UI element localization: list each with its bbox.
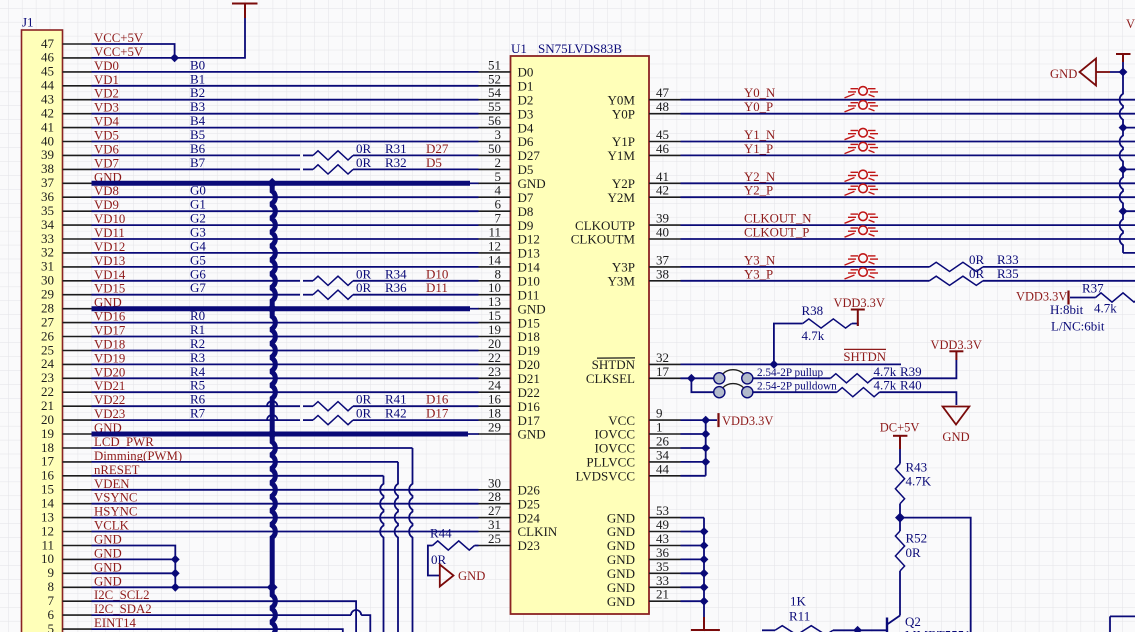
svg-text:D0: D0 bbox=[518, 65, 534, 80]
svg-text:14: 14 bbox=[41, 496, 55, 511]
svg-text:45: 45 bbox=[41, 64, 54, 79]
svg-text:44: 44 bbox=[41, 78, 55, 93]
svg-text:U1: U1 bbox=[511, 41, 527, 56]
svg-text:EINT14: EINT14 bbox=[94, 616, 137, 630]
junction dots VCC group bbox=[701, 416, 710, 425]
jumper link icon on Y3_N bbox=[845, 254, 879, 265]
svg-text:D22: D22 bbox=[518, 385, 540, 400]
svg-text:D11: D11 bbox=[518, 287, 540, 302]
svg-text:R37: R37 bbox=[1082, 281, 1104, 296]
wire D23 right of R44 bbox=[475, 545, 479, 547]
svg-text:D17: D17 bbox=[426, 406, 449, 421]
svg-text:Y3M: Y3M bbox=[608, 274, 636, 289]
svg-text:SHTDN: SHTDN bbox=[592, 357, 636, 372]
svg-text:D21: D21 bbox=[518, 371, 540, 386]
svg-text:VD20: VD20 bbox=[94, 365, 125, 379]
hop I2C_SDA2 over I2C_SCL2 bbox=[351, 610, 361, 615]
svg-text:D10: D10 bbox=[518, 274, 540, 289]
svg-text:16: 16 bbox=[41, 468, 55, 483]
svg-text:VD0: VD0 bbox=[94, 59, 119, 73]
svg-text:R33: R33 bbox=[997, 252, 1019, 267]
svg-text:D6: D6 bbox=[518, 134, 534, 149]
svg-text:7: 7 bbox=[48, 593, 55, 608]
svg-text:VCC+5V: VCC+5V bbox=[94, 45, 144, 59]
jumper header 2.54-2P pullup bbox=[714, 370, 753, 384]
svg-text:28: 28 bbox=[488, 489, 501, 504]
jumper link icon on Y3_P bbox=[845, 268, 879, 279]
wire R40 to GND bbox=[879, 392, 956, 405]
wire CLKSEL bbox=[681, 378, 714, 392]
svg-text:D2: D2 bbox=[518, 92, 534, 107]
svg-text:2: 2 bbox=[495, 155, 502, 170]
svg-text:41: 41 bbox=[656, 169, 669, 184]
LVDS differential wires bbox=[681, 100, 1135, 239]
svg-text:GND: GND bbox=[94, 546, 122, 560]
transistor Q2 bbox=[887, 616, 900, 632]
svg-text:Y0_N: Y0_N bbox=[744, 86, 775, 100]
svg-text:CLKOUTP: CLKOUTP bbox=[575, 218, 635, 233]
svg-text:Y1_P: Y1_P bbox=[744, 142, 773, 156]
svg-text:D5: D5 bbox=[426, 155, 442, 170]
svg-text:Y1M: Y1M bbox=[608, 148, 636, 163]
svg-text:CLKIN: CLKIN bbox=[518, 524, 558, 539]
svg-text:17: 17 bbox=[656, 364, 670, 379]
svg-text:15: 15 bbox=[488, 308, 501, 323]
junction Q2 base bbox=[853, 626, 862, 632]
svg-text:VD9: VD9 bbox=[94, 198, 119, 212]
wire R11 to base bbox=[833, 629, 858, 631]
power port bar VDD3.3V at R37 bbox=[1067, 291, 1069, 305]
wire D16 right segment bbox=[353, 405, 479, 407]
svg-text:D5: D5 bbox=[518, 162, 534, 177]
svg-text:35: 35 bbox=[41, 203, 54, 218]
svg-text:B7: B7 bbox=[190, 155, 206, 170]
svg-text:GND: GND bbox=[607, 566, 635, 581]
power port VDD3.3V above R38 bbox=[851, 310, 865, 327]
svg-text:GND: GND bbox=[607, 594, 635, 609]
svg-text:0R: 0R bbox=[356, 280, 372, 295]
wire D10 left segment bbox=[92, 280, 301, 282]
svg-text:31: 31 bbox=[41, 259, 54, 274]
resistor R44 bbox=[433, 541, 475, 550]
power port VDD3.3V top right (cropped) bbox=[1116, 54, 1131, 62]
svg-text:9: 9 bbox=[48, 565, 55, 580]
svg-text:D14: D14 bbox=[518, 260, 541, 275]
wire EINT14 bbox=[92, 629, 343, 632]
svg-text:CLKOUT_N: CLKOUT_N bbox=[744, 212, 812, 226]
svg-text:4.7k: 4.7k bbox=[802, 328, 825, 343]
svg-text:VD21: VD21 bbox=[94, 379, 125, 393]
svg-text:39: 39 bbox=[41, 147, 54, 162]
junction dots on GND rail bbox=[1119, 68, 1128, 77]
svg-text:0R: 0R bbox=[906, 545, 922, 560]
svg-text:nRESET: nRESET bbox=[94, 463, 140, 477]
svg-text:VD16: VD16 bbox=[94, 310, 126, 324]
power port GND bar bottom bbox=[691, 617, 720, 630]
svg-text:L/NC:6bit: L/NC:6bit bbox=[1051, 319, 1105, 334]
svg-text:D7: D7 bbox=[518, 190, 534, 205]
svg-text:29: 29 bbox=[41, 287, 54, 302]
svg-text:22: 22 bbox=[488, 350, 501, 365]
svg-text:Y1P: Y1P bbox=[612, 134, 635, 149]
svg-text:VD23: VD23 bbox=[94, 407, 125, 421]
svg-text:D20: D20 bbox=[518, 357, 540, 372]
wire VCC+5V pin47 bbox=[92, 44, 175, 58]
svg-text:G1: G1 bbox=[190, 197, 206, 212]
wire D27 left segment bbox=[92, 154, 301, 156]
svg-text:Y2_N: Y2_N bbox=[744, 170, 775, 184]
wire D17 left segment bbox=[92, 419, 301, 421]
wire DC+5V to R43 bbox=[899, 449, 901, 464]
jumper link icon on Y1_P bbox=[845, 142, 879, 153]
svg-text:GND: GND bbox=[94, 574, 122, 588]
svg-text:11: 11 bbox=[41, 537, 54, 552]
svg-text:19: 19 bbox=[41, 426, 54, 441]
wire Q2 base bbox=[858, 629, 887, 631]
svg-text:D26: D26 bbox=[518, 483, 541, 498]
power port VDD3.3V right bbox=[949, 351, 963, 360]
wire Y3_P left bbox=[681, 280, 930, 282]
svg-text:R38: R38 bbox=[802, 303, 824, 318]
svg-text:D3: D3 bbox=[518, 106, 534, 121]
svg-text:19: 19 bbox=[488, 322, 501, 337]
svg-text:0R: 0R bbox=[431, 552, 447, 567]
resistor R34 bbox=[313, 276, 353, 285]
svg-text:D16: D16 bbox=[426, 392, 449, 407]
svg-text:H:8bit: H:8bit bbox=[1050, 302, 1084, 317]
wire D17 right segment bbox=[353, 419, 479, 421]
jumper link icon on CLKOUT_P bbox=[845, 226, 879, 237]
svg-text:38: 38 bbox=[41, 161, 54, 176]
U1 right pin numbers bbox=[656, 85, 670, 602]
jumper link icon on Y0_P bbox=[845, 101, 879, 112]
svg-text:47: 47 bbox=[41, 36, 55, 51]
svg-text:27: 27 bbox=[41, 314, 55, 329]
svg-text:27: 27 bbox=[488, 503, 502, 518]
svg-text:G2: G2 bbox=[190, 211, 206, 226]
svg-text:Y0P: Y0P bbox=[612, 106, 635, 121]
svg-text:Y1_N: Y1_N bbox=[744, 128, 775, 142]
svg-text:GND: GND bbox=[607, 580, 635, 595]
svg-text:G5: G5 bbox=[190, 252, 206, 267]
svg-text:VD1: VD1 bbox=[94, 73, 119, 87]
svg-text:D17: D17 bbox=[518, 413, 541, 428]
svg-text:12: 12 bbox=[41, 523, 54, 538]
svg-text:G6: G6 bbox=[190, 266, 206, 281]
svg-text:R4: R4 bbox=[190, 364, 206, 379]
wire pullup to R39 bbox=[753, 377, 831, 379]
svg-text:8: 8 bbox=[48, 579, 55, 594]
wire R52 to Q2 collector bbox=[899, 571, 901, 616]
wire D11 right segment bbox=[353, 294, 479, 296]
svg-text:D12: D12 bbox=[518, 232, 540, 247]
svg-text:PLLVCC: PLLVCC bbox=[586, 455, 635, 470]
svg-text:42: 42 bbox=[656, 183, 669, 198]
resistor R40 bbox=[837, 388, 880, 397]
svg-text:29: 29 bbox=[488, 420, 501, 435]
svg-text:Y0M: Y0M bbox=[608, 92, 636, 107]
svg-text:VD15: VD15 bbox=[94, 282, 125, 296]
svg-text:55: 55 bbox=[488, 99, 501, 114]
svg-text:GND: GND bbox=[607, 552, 635, 567]
resistor R32 bbox=[313, 165, 353, 174]
svg-text:VD8: VD8 bbox=[94, 184, 119, 198]
svg-text:4: 4 bbox=[495, 183, 502, 198]
svg-text:VDD3.3V: VDD3.3V bbox=[722, 414, 773, 428]
U1 right pin names bbox=[571, 92, 636, 609]
svg-text:8: 8 bbox=[495, 266, 502, 281]
svg-text:16: 16 bbox=[488, 392, 502, 407]
wire Y3_N left bbox=[681, 266, 930, 268]
svg-text:10: 10 bbox=[488, 280, 501, 295]
svg-text:49: 49 bbox=[656, 517, 669, 532]
svg-text:I2C_SCL2: I2C_SCL2 bbox=[94, 588, 149, 602]
svg-text:20: 20 bbox=[488, 336, 501, 351]
svg-text:37: 37 bbox=[41, 175, 55, 190]
svg-text:6: 6 bbox=[48, 607, 55, 622]
svg-text:38: 38 bbox=[656, 266, 669, 281]
svg-text:R7: R7 bbox=[190, 406, 206, 421]
svg-text:53: 53 bbox=[656, 503, 669, 518]
junction CLKSEL bbox=[687, 374, 696, 383]
svg-text:21: 21 bbox=[41, 398, 54, 413]
IC U1 body bbox=[511, 56, 650, 614]
svg-text:VD7: VD7 bbox=[94, 156, 119, 170]
wire GND rows 11-8 bbox=[92, 546, 273, 588]
wire D5 right segment bbox=[353, 168, 479, 170]
svg-text:R1: R1 bbox=[190, 322, 205, 337]
svg-text:25: 25 bbox=[41, 342, 54, 357]
svg-text:G7: G7 bbox=[190, 280, 206, 295]
wires U1 GND pins bbox=[681, 518, 705, 617]
resistor R35 bbox=[930, 276, 984, 285]
svg-text:VD6: VD6 bbox=[94, 142, 119, 156]
svg-text:9: 9 bbox=[656, 406, 663, 421]
wire VDD3.3V to R37 bbox=[1070, 297, 1096, 299]
svg-text:43: 43 bbox=[41, 92, 54, 107]
svg-text:42: 42 bbox=[41, 106, 54, 121]
svg-text:B0: B0 bbox=[190, 57, 205, 72]
svg-text:6: 6 bbox=[495, 197, 502, 212]
svg-text:VCC+5V: VCC+5V bbox=[94, 31, 144, 45]
wire D27 right segment bbox=[353, 154, 479, 156]
junction VCC+5V bbox=[170, 54, 179, 63]
svg-text:VDEN: VDEN bbox=[94, 477, 130, 491]
svg-text:VD22: VD22 bbox=[94, 393, 125, 407]
junction R38-SHTDN bbox=[770, 360, 779, 369]
svg-text:R6: R6 bbox=[190, 392, 206, 407]
svg-text:52: 52 bbox=[488, 71, 501, 86]
svg-text:Dimming(PWM): Dimming(PWM) bbox=[94, 449, 182, 463]
svg-text:IOVCC: IOVCC bbox=[595, 427, 635, 442]
wires VCC/IOVCC/PLLVCC/LVDSVCC bbox=[681, 420, 718, 476]
resistor R42 bbox=[313, 416, 353, 425]
svg-text:R36: R36 bbox=[385, 280, 407, 295]
svg-text:22: 22 bbox=[41, 384, 54, 399]
jumper link icon on Y2_P bbox=[845, 184, 879, 195]
svg-text:R11: R11 bbox=[789, 609, 810, 624]
svg-text:33: 33 bbox=[41, 231, 54, 246]
svg-text:LVDSVCC: LVDSVCC bbox=[576, 469, 635, 484]
wire bottom right corner bbox=[1110, 616, 1135, 632]
wire nRESET bbox=[92, 475, 384, 477]
svg-text:30: 30 bbox=[488, 475, 501, 490]
svg-text:D19: D19 bbox=[518, 343, 540, 358]
svg-text:46: 46 bbox=[41, 50, 55, 65]
svg-text:CLKOUT_P: CLKOUT_P bbox=[744, 226, 809, 240]
power port DC+5V bbox=[893, 436, 907, 449]
svg-text:4.7k: 4.7k bbox=[874, 364, 897, 379]
svg-text:R52: R52 bbox=[906, 531, 928, 546]
svg-text:R2: R2 bbox=[190, 336, 205, 351]
svg-text:54: 54 bbox=[488, 85, 502, 100]
svg-text:14: 14 bbox=[488, 252, 502, 267]
svg-text:CLKSEL: CLKSEL bbox=[586, 371, 635, 386]
svg-text:7: 7 bbox=[495, 211, 502, 226]
svg-text:13: 13 bbox=[488, 294, 501, 309]
svg-text:R42: R42 bbox=[385, 406, 407, 421]
svg-text:43: 43 bbox=[656, 531, 669, 546]
svg-text:GND: GND bbox=[518, 427, 546, 442]
svg-text:40: 40 bbox=[41, 133, 54, 148]
resistor R41 bbox=[313, 402, 353, 411]
svg-text:J1: J1 bbox=[22, 15, 34, 30]
svg-text:CLKOUTM: CLKOUTM bbox=[571, 232, 636, 247]
svg-text:0R: 0R bbox=[356, 266, 372, 281]
svg-text:50: 50 bbox=[488, 141, 501, 156]
wire VCC+5V pin46 bbox=[92, 18, 246, 58]
svg-text:D8: D8 bbox=[518, 204, 534, 219]
jumper link icon on CLKOUT_N bbox=[845, 212, 879, 223]
wire D16 left segment bbox=[92, 405, 301, 407]
svg-text:GND: GND bbox=[518, 176, 546, 191]
svg-text:GND: GND bbox=[458, 569, 485, 583]
svg-text:0R: 0R bbox=[356, 406, 372, 421]
svg-text:20: 20 bbox=[41, 412, 54, 427]
svg-text:VCLK: VCLK bbox=[94, 519, 130, 533]
svg-text:Y0_P: Y0_P bbox=[744, 100, 773, 114]
svg-text:GND: GND bbox=[607, 538, 635, 553]
wire Y3_P right bbox=[983, 280, 1135, 282]
svg-text:R44: R44 bbox=[430, 526, 452, 541]
svg-text:31: 31 bbox=[488, 517, 501, 532]
wire R11 left bbox=[762, 629, 775, 631]
svg-text:26: 26 bbox=[41, 328, 55, 343]
svg-text:R5: R5 bbox=[190, 378, 205, 393]
svg-text:26: 26 bbox=[656, 434, 670, 449]
overline on pin name SHTDN bbox=[597, 357, 635, 359]
svg-text:D23: D23 bbox=[518, 538, 540, 553]
svg-text:2.54-2P pullup: 2.54-2P pullup bbox=[757, 367, 823, 379]
svg-text:0R: 0R bbox=[356, 141, 372, 156]
svg-text:R39: R39 bbox=[900, 364, 922, 379]
svg-text:15: 15 bbox=[41, 482, 54, 497]
wire hops over bus on VD22 VD23 bbox=[267, 401, 277, 420]
svg-text:VD14: VD14 bbox=[94, 268, 126, 282]
svg-text:R35: R35 bbox=[997, 266, 1019, 281]
resistor R38 connection wires bbox=[774, 324, 858, 365]
svg-text:23: 23 bbox=[41, 370, 54, 385]
resistor R43 bbox=[895, 464, 904, 504]
svg-text:0R: 0R bbox=[356, 155, 372, 170]
svg-text:24: 24 bbox=[41, 356, 55, 371]
power port VCC+5V top bbox=[232, 4, 258, 19]
svg-text:3: 3 bbox=[495, 127, 502, 142]
wire LCD_PWR bbox=[92, 447, 413, 449]
jumper link icon on Y1_N bbox=[845, 128, 879, 139]
svg-text:Y2P: Y2P bbox=[612, 176, 635, 191]
junction dots U1 GND group bbox=[700, 527, 709, 536]
svg-text:GND: GND bbox=[1050, 67, 1077, 81]
svg-text:28: 28 bbox=[41, 301, 54, 316]
svg-text:5: 5 bbox=[495, 169, 502, 184]
svg-text:24: 24 bbox=[488, 378, 502, 393]
svg-text:B4: B4 bbox=[190, 113, 206, 128]
wire node to R52 bbox=[899, 518, 901, 531]
svg-text:18: 18 bbox=[488, 406, 501, 421]
svg-text:47: 47 bbox=[656, 85, 670, 100]
svg-text:Y2_P: Y2_P bbox=[744, 184, 773, 198]
U1 right pin stubs bbox=[649, 100, 681, 602]
svg-text:25: 25 bbox=[488, 531, 501, 546]
svg-text:D13: D13 bbox=[518, 246, 540, 261]
wire D5 left segment bbox=[92, 168, 301, 170]
svg-text:VD19: VD19 bbox=[94, 351, 125, 365]
resistor R52 bbox=[895, 531, 904, 571]
svg-text:VD2: VD2 bbox=[94, 87, 119, 101]
svg-text:R3: R3 bbox=[190, 350, 205, 365]
svg-text:D1: D1 bbox=[518, 79, 534, 94]
svg-text:17: 17 bbox=[41, 454, 55, 469]
wire Dimming(PWM) bbox=[92, 461, 399, 463]
svg-text:30: 30 bbox=[41, 273, 54, 288]
svg-text:VDD3.3V: VDD3.3V bbox=[834, 296, 885, 310]
svg-text:32: 32 bbox=[656, 350, 669, 365]
svg-text:D9: D9 bbox=[518, 218, 534, 233]
svg-text:37: 37 bbox=[656, 252, 670, 267]
svg-text:B3: B3 bbox=[190, 99, 205, 114]
svg-text:VD4: VD4 bbox=[94, 115, 119, 129]
svg-text:D25: D25 bbox=[518, 496, 540, 511]
thick GND wire row 28 bbox=[92, 306, 471, 311]
svg-text:VD10: VD10 bbox=[94, 212, 125, 226]
svg-text:VSYNC: VSYNC bbox=[94, 491, 137, 505]
svg-text:R34: R34 bbox=[385, 266, 407, 281]
svg-text:R32: R32 bbox=[385, 155, 407, 170]
svg-text:41: 41 bbox=[41, 119, 54, 134]
svg-text:D16: D16 bbox=[518, 399, 541, 414]
svg-text:B1: B1 bbox=[190, 71, 205, 86]
svg-text:R41: R41 bbox=[385, 392, 407, 407]
resistor R36 bbox=[313, 290, 353, 299]
svg-text:51: 51 bbox=[488, 57, 501, 72]
jumper link icon on Y0_N bbox=[845, 87, 879, 98]
svg-text:39: 39 bbox=[656, 211, 669, 226]
junction dots GND tie bbox=[171, 555, 180, 564]
svg-text:32: 32 bbox=[41, 245, 54, 260]
junction node R43/R52 bbox=[895, 513, 905, 523]
svg-text:1: 1 bbox=[656, 420, 663, 435]
svg-text:VDD3.3V: VDD3.3V bbox=[1126, 17, 1135, 31]
svg-text:LCD_PWR: LCD_PWR bbox=[94, 435, 154, 449]
resistor R38 bbox=[803, 319, 852, 328]
svg-text:I2C_SDA2: I2C_SDA2 bbox=[94, 602, 152, 616]
svg-text:0R: 0R bbox=[356, 392, 372, 407]
jumper link icon on Y2_N bbox=[845, 170, 879, 181]
svg-text:45: 45 bbox=[656, 127, 669, 142]
wire D10 right segment bbox=[353, 280, 479, 282]
svg-text:DC+5V: DC+5V bbox=[880, 421, 920, 435]
